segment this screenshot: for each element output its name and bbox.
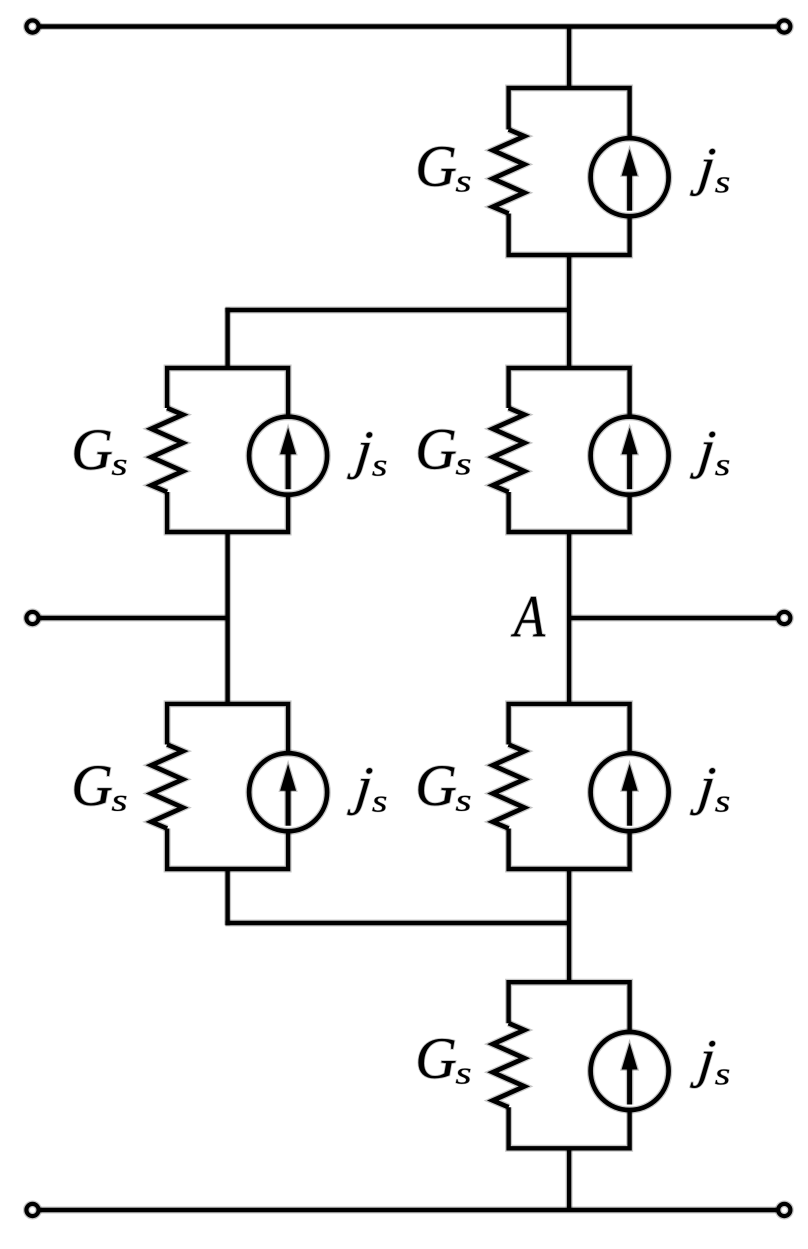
current source j_s (U1 (top right)) circle [591, 138, 669, 216]
terminal middle left [26, 612, 38, 624]
terminal bottom left [26, 1204, 38, 1216]
terminal top right [778, 20, 790, 32]
label G_s (U2 (mid left)) [74, 430, 111, 469]
resistor G_s (U3 (mid right)) zigzag [493, 408, 525, 492]
current source j_s (U2 (mid left)) arrow [280, 428, 296, 490]
resistor G_s (U6 (bottom right)) zigzag [493, 1023, 525, 1107]
resistor G_s (U4 (low left)) zigzag [151, 745, 183, 829]
wire: bottom rail [33, 1207, 785, 1214]
component box U4 (low left): parallel G_s / j_s [167, 704, 288, 869]
component box U1 (top right): parallel G_s / j_s [509, 88, 630, 255]
label j_s (U2 (mid left)) [347, 432, 373, 479]
label G_s (U4 (low left)) [74, 766, 111, 805]
wire: upper junction to box3 [566, 310, 573, 368]
resistor G_s (U2 (mid left)) zigzag [151, 408, 183, 492]
current source j_s (U3 (mid right)) circle [591, 417, 669, 495]
wire: box2 through middle-left wire to box4 [224, 532, 231, 704]
component box U6 (bottom right): parallel G_s / j_s [509, 982, 630, 1148]
wire: box1 to upper junction [566, 255, 573, 310]
label j_s (U6 (bottom right)) [690, 1041, 716, 1088]
current source j_s (U6 (bottom right)) arrow [622, 1043, 638, 1105]
label j_s (U4 (low left)) [347, 768, 373, 815]
terminal top left [26, 20, 38, 32]
wire: middle wire to box5 [566, 618, 573, 704]
label j_s (U3 (mid right)) [690, 432, 716, 479]
label G_s (U6 (bottom right)) [418, 1039, 455, 1078]
resistor G_s (U5 (low right)) zigzag [493, 745, 525, 829]
current source j_s (U6 (bottom right)) circle [591, 1032, 669, 1110]
component box U5 (low right): parallel G_s / j_s [509, 704, 630, 869]
wire: middle left segment [33, 615, 228, 622]
wire: box5 to lower junction [566, 869, 573, 923]
component box U3 (mid right): parallel G_s / j_s [509, 368, 630, 532]
wire: right column, top rail to box1 [566, 27, 573, 89]
node A label [511, 597, 545, 636]
current source j_s (U1 (top right)) arrow [622, 149, 638, 211]
wire: top rail [33, 23, 785, 30]
label G_s (U1 (top right)) [418, 147, 455, 186]
component box U2 (mid left): parallel G_s / j_s [167, 368, 288, 532]
current source j_s (U2 (mid left)) circle [249, 417, 327, 495]
wire: lower junction horizontal [225, 920, 569, 927]
current source j_s (U4 (low left)) circle [249, 753, 327, 831]
label j_s (U1 (top right)) [690, 149, 716, 196]
current source j_s (U5 (low right)) circle [591, 753, 669, 831]
resistor G_s (U1 (top right)) zigzag [493, 130, 525, 214]
wire: middle right segment [569, 615, 784, 622]
wire: lower junction to box6 [566, 923, 573, 982]
label G_s (U5 (low right)) [418, 766, 455, 805]
terminal bottom right [778, 1204, 790, 1216]
current source j_s (U3 (mid right)) arrow [622, 428, 638, 490]
terminal middle right [778, 612, 790, 624]
wire: box6 to bottom rail [566, 1148, 573, 1210]
label j_s (U5 (low right)) [690, 768, 716, 815]
wire: box3 to node A / middle wire [566, 532, 573, 618]
wire: upper junction horizontal [225, 307, 569, 314]
current source j_s (U4 (low left)) arrow [280, 764, 296, 826]
wire: box4 to lower junction [224, 869, 231, 925]
current source j_s (U5 (low right)) arrow [622, 764, 638, 826]
label G_s (U3 (mid right)) [418, 430, 455, 469]
wire: upper junction to box2 [224, 308, 231, 368]
